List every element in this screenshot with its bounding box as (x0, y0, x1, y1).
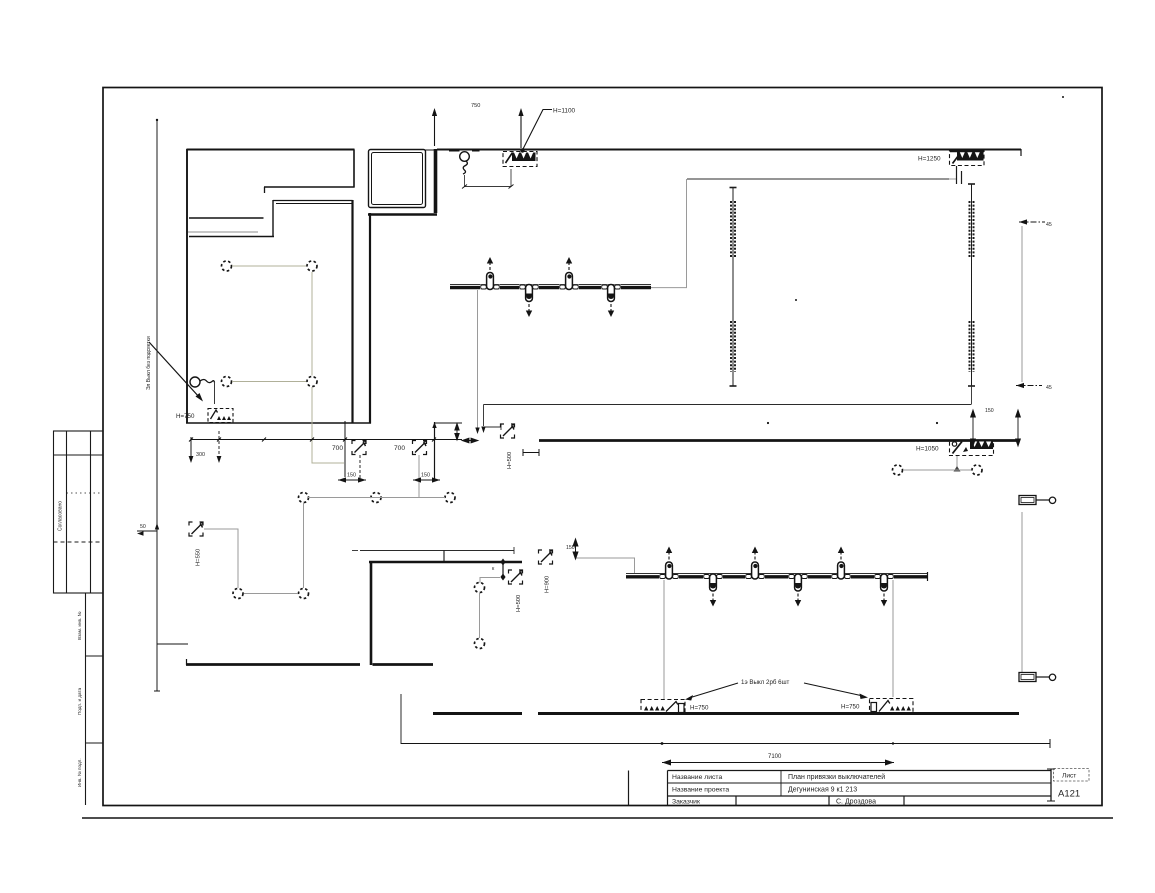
arrow up head x521 (518, 108, 523, 116)
dimension line main y439 (191, 439, 462, 441)
wire switch H550 (204, 529, 238, 588)
track 2 spot down B (703, 574, 723, 607)
ceiling light mid row circle B (371, 493, 381, 503)
switch SW4 brackets (539, 550, 553, 564)
switch SB6 diagonal (211, 410, 218, 419)
svg-text:45: 45 (1046, 385, 1052, 391)
stray dot a (795, 299, 797, 301)
ceiling light row1 circle A (222, 261, 232, 271)
svg-text:Н=750: Н=750 (690, 705, 709, 712)
right dim marks y385 (1016, 385, 1042, 387)
wall shelf y236 (189, 236, 274, 238)
wire row1 (232, 265, 306, 267)
wire row1 down (311, 272, 313, 376)
bottom dim end tick (1049, 739, 1051, 748)
ceiling light row2 circle A (222, 377, 232, 387)
wire mid row down (303, 503, 305, 588)
leader arrow to SB5 (804, 683, 863, 696)
wall double y200 (273, 200, 353, 202)
dim ext arrow x219 (217, 456, 222, 463)
stray dot d (1062, 96, 1064, 98)
svg-text:Дегунинская 9 к1 213: Дегунинская 9 к1 213 (788, 787, 857, 794)
right dim dashdot y222 (1019, 221, 1045, 223)
leader drop from floor line (484, 405, 502, 431)
ceiling light right pair B (972, 465, 982, 475)
dim ext x360 dashed (359, 455, 361, 480)
label H1100 leader (523, 110, 552, 150)
switch SB1 diagonal glyph (506, 153, 513, 164)
frame border (103, 88, 1102, 806)
dim ext x345 (344, 421, 346, 477)
leader arrowhead SB4 (685, 695, 693, 701)
switch SB6 triangles (217, 416, 231, 420)
partition strip x971 (968, 184, 975, 386)
wire mid row (308, 497, 445, 499)
big room floor line y404 (484, 404, 972, 406)
switch SB5 diagonal (879, 701, 890, 712)
wall shaft right x370 (369, 213, 371, 424)
ceiling light low row circle A (233, 589, 243, 599)
wire to low lights (480, 578, 500, 584)
svg-text:Н=500: Н=500 (516, 595, 522, 612)
partition strip x733 (730, 188, 737, 387)
svg-text:50: 50 (140, 524, 146, 530)
closet room inner box (372, 153, 423, 205)
wall step vertical x273 (272, 200, 274, 237)
mini dim arrows x457 (455, 424, 459, 441)
svg-text:Н=550: Н=550 (196, 549, 202, 566)
sconce upper (1019, 496, 1056, 505)
wall mid thick y440 (539, 439, 1018, 442)
svg-text:150: 150 (421, 473, 430, 479)
stray dot c (936, 422, 938, 424)
wire low row (244, 593, 298, 595)
tick down to wall x444 (443, 551, 445, 562)
dim 150a line (338, 479, 366, 481)
right dim vertical upper (1021, 226, 1023, 382)
wall right of top-left room (353, 150, 355, 188)
ceiling light row1 circle B (307, 261, 317, 271)
ceiling light row2 circle B (307, 377, 317, 387)
switch SB1 hatch band (512, 153, 536, 162)
svg-text:45: 45 (1046, 222, 1052, 228)
svg-text:150: 150 (985, 408, 994, 414)
bottom dim line2 arrows (662, 760, 894, 766)
wavy switch top circle (460, 152, 470, 162)
wire track1 right to ceiling (651, 179, 687, 288)
dim 150b arrows (413, 477, 440, 482)
dim arrows near track2 (573, 539, 578, 559)
svg-text:Название листа: Название листа (672, 774, 722, 781)
wall top end tick (1020, 149, 1022, 156)
closet room outer box (369, 150, 426, 208)
switch SB4 dashed box bottom left (641, 700, 685, 714)
stray dot b (767, 422, 769, 424)
track 2 bar (626, 575, 927, 578)
wall bottom short segment near entry (434, 422, 462, 424)
wall end dim arrows x973 (971, 410, 976, 446)
wire row2 down (312, 387, 344, 463)
svg-text:700: 700 (394, 445, 405, 452)
svg-text:Н=1250: Н=1250 (918, 156, 941, 163)
sheet outer bottom edge (82, 817, 1113, 819)
svg-text:700: 700 (332, 445, 343, 452)
wall y664 left segment (186, 663, 360, 666)
svg-text:А121: А121 (1058, 789, 1080, 800)
ceiling light pair circle B (475, 639, 485, 649)
wall lintel end tick (264, 187, 266, 193)
ceiling light mid row circle C (445, 493, 455, 503)
wavy switch left drop (214, 382, 216, 404)
left ext cross tick y644 (157, 643, 188, 645)
ceiling light low row circle B (299, 589, 309, 599)
track 1 spot up A (480, 257, 500, 290)
wall end dim arrows x1018 (1016, 410, 1021, 446)
left margin stamp upper box (54, 431, 104, 593)
track 2 thin rail line (626, 573, 927, 575)
svg-text:Лист: Лист (1062, 773, 1076, 780)
wire row2 (232, 381, 306, 383)
switch SB5 dashed box bottom right (870, 699, 914, 714)
bottom dim node x893 (892, 742, 894, 744)
wall double y203 (276, 203, 353, 205)
left margin stamp lower column (86, 593, 104, 805)
track 1 thin rail line (450, 284, 651, 286)
arrow up at x434 (434, 115, 436, 146)
wire ceiling to switch H1250 (949, 178, 956, 180)
wall y664 left end tick (186, 659, 188, 665)
track 2 spot up A (659, 547, 679, 580)
wire switch H900 diamonds (502, 562, 504, 577)
svg-text:Н=1050: Н=1050 (916, 446, 939, 453)
dim ext x434 top tick (432, 422, 436, 428)
switch SB3 knob (963, 447, 968, 452)
bottom dim line2 (662, 762, 894, 764)
dim 150b line (413, 479, 440, 481)
switch SB3 dashed box H1050 (950, 441, 994, 456)
wire switch H1050 down (956, 455, 958, 470)
switch SW3 brackets (509, 570, 523, 584)
svg-text:Заказчик: Заказчик (672, 799, 700, 806)
switch SW H550 brackets (189, 522, 203, 536)
big room ceiling line y179 (687, 178, 949, 180)
right dim arrow y385 (1016, 383, 1024, 388)
svg-text:Согласовано: Согласовано (58, 501, 64, 531)
wall y562 horizontal (369, 561, 522, 564)
switch SB4 diagonal (666, 702, 678, 712)
list cell box (1054, 769, 1090, 782)
arrow up at x521 (520, 115, 522, 148)
left ext top tick (156, 119, 158, 121)
thin line y550 (360, 547, 514, 554)
mini dim pair arrows y440 (462, 438, 478, 443)
left ext bottom tick (154, 690, 160, 692)
switch SB3 circle glyph (952, 442, 956, 446)
wall x371 vertical lower (370, 561, 373, 665)
svg-text:1э Выкл 2рб 6шт: 1э Выкл 2рб 6шт (741, 679, 790, 686)
track 1 spot down B (519, 285, 539, 318)
svg-text:Подп. и дата: Подп. и дата (77, 687, 82, 715)
svg-text:Название проекта: Название проекта (672, 787, 729, 794)
wire track2 to dim (576, 558, 635, 573)
wire track1 arrow (475, 428, 479, 435)
wire junction tick (954, 466, 961, 472)
wire track1 to switch H500 (477, 290, 479, 429)
track 1 bar (450, 286, 651, 289)
leader arrowhead SB6 (196, 393, 204, 402)
switch H1250 drop lines (957, 166, 962, 184)
wire pair (479, 593, 481, 638)
strip2 connector to floor line (971, 386, 973, 404)
switch SW700b brackets (413, 441, 427, 455)
wall shaft left x352 (351, 200, 353, 424)
wire right pair (903, 469, 971, 471)
sconce dim vertical (1021, 512, 1023, 672)
switch SB2 diagonal (953, 152, 962, 164)
svg-text:План привязки выключателей: План привязки выключателей (788, 773, 885, 781)
wall bottom y713 segment b (538, 712, 1019, 715)
wavy switch left squiggle (200, 380, 215, 383)
track 2 end tick (927, 572, 929, 581)
bracket tick b (509, 185, 514, 189)
switch SW H500 brackets (501, 424, 515, 438)
svg-text:Инв. № подл.: Инв. № подл. (77, 758, 82, 787)
left ext arrows y531 (137, 523, 159, 536)
switch SB2 hatch band (957, 152, 984, 161)
entry thick wall vertical (434, 149, 438, 213)
dim ext x434 (434, 422, 436, 480)
dim 150a arrows (338, 477, 366, 482)
dim ext x191 (190, 437, 192, 458)
svg-text:150: 150 (566, 545, 575, 551)
wire track2 drop to switch right (892, 580, 894, 697)
track 2 spot down D (788, 574, 808, 607)
wall left vertical (186, 149, 188, 424)
switch SB1 top dashed box (503, 152, 537, 167)
track 2 spot down F (874, 574, 894, 607)
switch SB6 left room dashed box (208, 409, 233, 423)
left long extension line (156, 120, 158, 691)
diamond node a (500, 559, 505, 566)
switch SB2 bar (950, 150, 984, 152)
wall bottom y713 segment a (433, 712, 522, 715)
switch SB3 diagonal (953, 442, 963, 454)
title block grid (629, 769, 1056, 806)
sconce lower (1019, 673, 1056, 682)
wall lintel y187 (264, 186, 355, 188)
bottom dim extension L (401, 694, 1050, 744)
dim ext arrow x191 (189, 456, 194, 463)
ceiling light mid row circle A (299, 493, 309, 503)
leader drop arrowhead (481, 427, 485, 434)
track 2 spot up E (831, 547, 851, 580)
switch SB2 dashed box H1250 (950, 150, 985, 166)
thin line y550 dashdot start (352, 550, 358, 552)
svg-text:300: 300 (196, 452, 205, 458)
svg-text:Н=750: Н=750 (841, 704, 860, 711)
wavy switch top wall dashes (449, 149, 480, 152)
diamond node b (500, 574, 505, 581)
wall bottom of upper-left rooms (186, 422, 371, 424)
wall top main long (437, 149, 1021, 151)
wavy switch left room circle (190, 377, 200, 387)
svg-text:150: 150 (347, 473, 356, 479)
switch SW700a brackets (352, 441, 366, 455)
switch SB3 hatch band (970, 442, 993, 450)
wall top-left room (187, 149, 355, 151)
wall shelf y232 grey (188, 231, 258, 233)
ceiling light pair circle A (475, 583, 485, 593)
track 2 spot up C (745, 547, 765, 580)
wire switch700b down (418, 455, 420, 497)
dim ext x219 dashed (218, 431, 220, 458)
right dim arrow y222 (1019, 219, 1027, 224)
wavy switch bracket (465, 169, 512, 187)
svg-text:750: 750 (471, 103, 480, 109)
wall y664 right segment (373, 663, 434, 666)
left ext cross tick y531 (137, 530, 157, 532)
bracket tick a (462, 185, 467, 189)
leader arrowhead SB5 (860, 694, 869, 700)
wall shelf y218 (189, 217, 264, 219)
small dim under wall start (523, 449, 539, 456)
bottom dim node x662 (661, 742, 664, 745)
switch SB5 triangles (890, 706, 911, 711)
arrow up head x434 (432, 108, 437, 116)
wire track2 drop to switch left (663, 580, 665, 699)
entry wall link (425, 149, 437, 151)
svg-text:Н=500: Н=500 (507, 452, 513, 469)
track 1 spot up C (559, 257, 579, 290)
track 1 spot down D (601, 285, 621, 318)
svg-text:7100: 7100 (768, 754, 782, 760)
leader diag to SB6 (149, 342, 200, 398)
svg-text:Н=900: Н=900 (545, 576, 551, 593)
svg-text:Н=1100: Н=1100 (553, 108, 576, 115)
wavy switch top squiggle (463, 161, 467, 174)
switch SB1 wall dot (520, 148, 524, 152)
dim ticks y439 (189, 438, 436, 442)
switch SB4 triangles (644, 706, 665, 711)
entry wall bottom y214 (368, 213, 437, 216)
svg-text:Эл Выкл без подсветки: Эл Выкл без подсветки (146, 336, 152, 390)
leader arrow to SB4 (689, 683, 738, 698)
svg-text:Н=750: Н=750 (176, 413, 195, 420)
ceiling light right pair A (893, 465, 903, 475)
svg-text:Взам. инв. №: Взам. инв. № (77, 611, 82, 640)
svg-text:С. Дроздова: С. Дроздова (836, 799, 876, 806)
